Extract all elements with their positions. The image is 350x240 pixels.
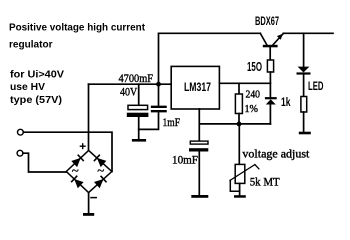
svg-text:4700mF: 4700mF bbox=[119, 71, 154, 85]
ground C1 bbox=[132, 139, 146, 142]
wire R3 to ground bbox=[303, 112, 305, 132]
resistor R2 240 bbox=[235, 94, 242, 114]
svg-text:240: 240 bbox=[246, 88, 261, 100]
diode D5 protection bbox=[266, 98, 276, 104]
label plus polarity bbox=[80, 144, 85, 149]
wire top rail right segment bbox=[283, 32, 333, 34]
terminal input 1 bbox=[18, 129, 24, 135]
wire junction to pot bbox=[238, 124, 240, 164]
note text bbox=[10, 70, 64, 107]
node junction dot B bbox=[237, 122, 242, 127]
capacitor C2 1mF bbox=[139, 84, 166, 129]
bridge diode D3 bottom-left bbox=[72, 176, 84, 188]
bridge diode D2 top-right bbox=[94, 155, 106, 167]
svg-text:~: ~ bbox=[97, 163, 104, 178]
title text bbox=[9, 23, 146, 51]
svg-text:LM317: LM317 bbox=[184, 80, 211, 94]
bridge rectifier diamond bbox=[66, 150, 112, 192]
svg-text:Positive voltage high current: Positive voltage high current bbox=[9, 23, 146, 34]
wire R2 to junction bbox=[238, 114, 240, 124]
potentiometer RV1 5k MT bbox=[230, 164, 259, 195]
svg-text:for Ui>40V: for Ui>40V bbox=[10, 70, 64, 81]
svg-text:1mF: 1mF bbox=[163, 115, 181, 129]
ground RV1 bbox=[234, 195, 246, 198]
wire bridge plus vertical bbox=[88, 84, 90, 150]
bridge diode D1 top-left bbox=[71, 155, 83, 167]
resistor R3 1k bbox=[301, 97, 307, 113]
op-amp U1 LM317 regulator box bbox=[171, 66, 219, 109]
wire LM317 out bbox=[219, 82, 270, 84]
transistor Q1 BDX67 bbox=[260, 33, 283, 60]
svg-text:type (57V): type (57V) bbox=[10, 95, 62, 106]
svg-text:LED: LED bbox=[308, 79, 324, 93]
wire top rail left segment bbox=[159, 33, 261, 84]
diode D6 LED bbox=[298, 67, 310, 74]
label minus polarity bbox=[91, 197, 96, 199]
svg-text:use HV: use HV bbox=[10, 82, 45, 93]
wire bridge minus down bbox=[88, 193, 90, 213]
svg-text:~: ~ bbox=[72, 163, 79, 178]
wire LM317 adj down and right bbox=[199, 109, 270, 141]
wire rail to LED bbox=[303, 33, 305, 66]
bridge diode D4 bottom-right bbox=[94, 176, 106, 188]
node junction dot A bbox=[156, 82, 161, 87]
wire terminal2 to bridge left corner bbox=[23, 153, 66, 172]
wire R1 to D5 bbox=[269, 72, 271, 98]
svg-text:15O: 15O bbox=[247, 59, 262, 74]
wire D5 to adj rail bbox=[269, 105, 271, 124]
svg-text:10mF: 10mF bbox=[172, 153, 198, 167]
terminal input 2 bbox=[17, 150, 23, 156]
svg-text:1k: 1k bbox=[281, 97, 291, 109]
svg-text:1%: 1% bbox=[245, 103, 259, 115]
ground bridge bbox=[83, 213, 94, 216]
ground R3 bbox=[299, 132, 311, 135]
svg-text:BDX67: BDX67 bbox=[255, 14, 279, 28]
svg-text:5k MT: 5k MT bbox=[250, 175, 281, 189]
wire out to R2 stub bbox=[238, 83, 240, 94]
capacitor C3 10mF bbox=[189, 141, 208, 195]
resistor R1 150 bbox=[267, 60, 273, 72]
svg-text:regulator: regulator bbox=[9, 40, 53, 51]
svg-text:40V: 40V bbox=[120, 85, 137, 99]
capacitor C1 4700mF electrolytic bbox=[127, 84, 149, 139]
ground C3 bbox=[191, 195, 208, 198]
wire LED to R3 bbox=[303, 75, 305, 97]
wire terminal1 to bridge right corner bbox=[23, 132, 112, 171]
svg-text:voltage adjust: voltage adjust bbox=[242, 146, 310, 160]
wire input rail bbox=[89, 83, 172, 85]
